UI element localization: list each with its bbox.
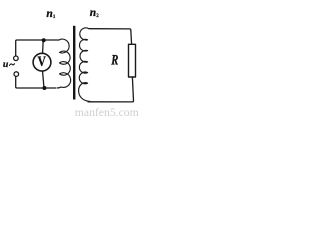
label ~ of source: [10, 64, 15, 66]
terminal: source bottom circle: [14, 72, 19, 77]
svg-text:manfen5.com: manfen5.com: [75, 106, 139, 119]
wire: voltmeter branch bottom: [43, 72, 44, 88]
voltmeter U1 circle: [33, 53, 51, 71]
svg-text:u: u: [3, 59, 9, 70]
wire: primary top from source to coil: [16, 40, 59, 56]
svg-text:2: 2: [96, 14, 99, 19]
transformer iron core: [73, 26, 75, 100]
inductor L1 primary winding n1: [57, 39, 71, 88]
resistor R box: [129, 44, 136, 77]
wire: voltmeter branch top: [42, 40, 45, 52]
svg-text:R: R: [111, 53, 119, 69]
inductor L2 secondary winding n2: [79, 28, 90, 102]
svg-text:n: n: [90, 7, 96, 19]
wire: primary bottom from source to coil: [16, 77, 56, 88]
wire: secondary bottom to resistor: [88, 77, 134, 102]
wire: secondary top to resistor: [89, 29, 132, 45]
terminal: source top circle: [14, 56, 19, 61]
svg-text:1: 1: [53, 15, 56, 20]
svg-text:n: n: [46, 8, 52, 20]
junction dot bottom: [42, 86, 46, 90]
junction dot top: [42, 38, 46, 42]
svg-text:V: V: [38, 54, 47, 70]
